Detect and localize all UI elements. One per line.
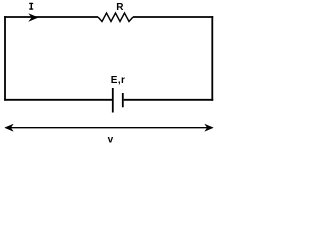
label I: [29, 3, 33, 10]
svg-text:R: R: [116, 2, 124, 13]
dimension arrowhead right: [205, 124, 213, 131]
battery E,r short plate: [122, 93, 124, 107]
wire bottom-right segment: [124, 99, 214, 101]
current arrow I: [29, 14, 38, 21]
battery E,r long plate: [112, 88, 114, 113]
svg-text:E,r: E,r: [111, 75, 126, 86]
wire left side: [4, 16, 6, 101]
svg-text:v: v: [108, 135, 114, 146]
dimension arrowhead left: [5, 124, 13, 131]
wire top-right segment: [133, 16, 213, 18]
wire top-left segment: [4, 16, 98, 18]
voltage dimension line v: [7, 127, 211, 129]
resistor R: [98, 13, 133, 22]
wire right side: [211, 16, 213, 101]
wire bottom-left segment: [4, 99, 112, 101]
